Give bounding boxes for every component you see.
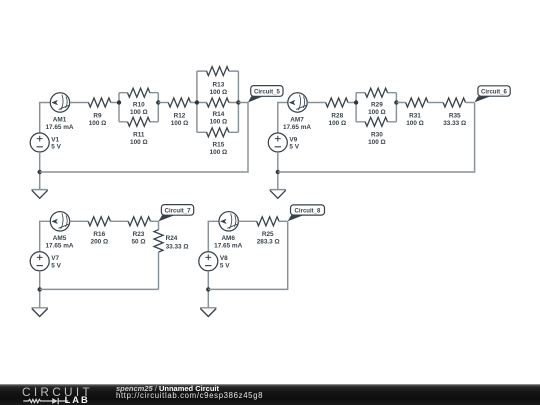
ground (circuit 3) [32, 308, 48, 317]
svg-text:100 Ω: 100 Ω [130, 139, 148, 146]
junction right of R29/R30 [394, 100, 398, 104]
ground (circuit 4) [200, 308, 216, 317]
junction right of triple box [236, 100, 240, 104]
svg-text:100 Ω: 100 Ω [368, 139, 386, 146]
wire box to R31 [396, 102, 405, 104]
svg-text:AM7: AM7 [290, 116, 304, 123]
svg-text:R30: R30 [371, 132, 383, 139]
wire R23 to node Circuit_7 [151, 221, 159, 229]
svg-text:5 V: 5 V [220, 263, 230, 270]
svg-text:17.65 mA: 17.65 mA [45, 124, 73, 131]
svg-text:5 V: 5 V [51, 144, 61, 151]
wire R35 to node Circuit_6 [466, 102, 475, 104]
svg-text:R31: R31 [409, 112, 421, 119]
voltage source V1 (5 V) [30, 133, 61, 152]
resistor R12 (100 Ω) [168, 98, 190, 127]
footer bar [0, 384, 540, 405]
resistor R13 (100 Ω) [207, 67, 229, 96]
net flag Circuit_5 [248, 86, 283, 103]
voltage source V8 (5 V) [199, 252, 230, 271]
resistor R11 (100 Ω) [128, 117, 150, 146]
wire R24 bottom to return [158, 252, 160, 289]
wire R28 to box [348, 102, 356, 104]
svg-text:33.33 Ω: 33.33 Ω [443, 120, 466, 127]
svg-text:R25: R25 [262, 231, 274, 238]
bottom return wire of circuit 2 [278, 103, 475, 173]
resistor R25 (283.3 Ω) [257, 217, 280, 246]
bottom return wire of circuit 1 [40, 103, 248, 173]
svg-text:V8: V8 [220, 255, 228, 262]
CircuitLab logo wordmark [22, 387, 93, 398]
svg-text:100 Ω: 100 Ω [406, 120, 424, 127]
resistor R24 (33.33 Ω) vertical [154, 230, 189, 252]
CircuitLab logo schematic squiggle [22, 396, 72, 405]
net flag Circuit_6 [475, 86, 511, 103]
ammeter AM5 (17.65 mA) [45, 212, 73, 250]
wire from AM6 left to V8 top [208, 221, 219, 252]
junction at V8 bottom node [206, 287, 210, 291]
svg-text:V9: V9 [289, 136, 297, 143]
svg-text:17.65 mA: 17.65 mA [45, 243, 73, 250]
wire R16 to R23 [111, 220, 129, 222]
ground (circuit 2) [270, 190, 286, 199]
svg-text:33.33 Ω: 33.33 Ω [166, 243, 189, 250]
ammeter AM1 (17.65 mA) [45, 93, 73, 131]
wire R9 to parallel box [111, 102, 119, 104]
junction at V1 bottom node [38, 170, 42, 174]
svg-text:AM1: AM1 [53, 116, 67, 123]
svg-text:R15: R15 [213, 141, 225, 148]
svg-text:AM6: AM6 [221, 235, 235, 242]
junction left of R29/R30 [354, 100, 358, 104]
junction at V9 bottom node [276, 170, 280, 174]
svg-text:Circuit_5: Circuit_5 [254, 89, 281, 95]
svg-text:50 Ω: 50 Ω [131, 239, 145, 246]
svg-text:17.65 mA: 17.65 mA [283, 124, 311, 131]
svg-text:R35: R35 [449, 112, 461, 119]
ammeter AM7 (17.65 mA) [283, 93, 311, 131]
svg-text:R14: R14 [213, 111, 225, 118]
CircuitLab logo LAB text [65, 396, 90, 404]
svg-text:R29: R29 [371, 101, 383, 108]
wire R12 to triple box [191, 102, 197, 104]
svg-text:100 Ω: 100 Ω [130, 109, 148, 116]
resistor R10 (100 Ω) [128, 88, 150, 116]
svg-text:R16: R16 [93, 231, 105, 238]
svg-text:100 Ω: 100 Ω [210, 119, 228, 126]
wire from AM7 left to V9 top [278, 103, 288, 134]
junction at V7 bottom node [38, 287, 42, 291]
resistor R9 (100 Ω) [88, 98, 110, 127]
wire R25 to node Circuit_8 [279, 220, 288, 222]
footer url line [116, 392, 263, 399]
svg-text:100 Ω: 100 Ω [329, 120, 347, 127]
svg-text:100 Ω: 100 Ω [368, 109, 386, 116]
svg-text:R11: R11 [133, 132, 145, 139]
wire box1 to R12 [158, 102, 168, 104]
svg-text:Circuit_8: Circuit_8 [295, 209, 322, 215]
junction left of R10/R11 [117, 100, 121, 104]
svg-text:R10: R10 [133, 101, 145, 108]
svg-text:V7: V7 [51, 255, 59, 262]
svg-text:5 V: 5 V [289, 144, 299, 151]
junction right of R10/R11 [156, 100, 160, 104]
wire AM6 to R25 [238, 220, 256, 222]
svg-text:100 Ω: 100 Ω [210, 149, 228, 156]
footer title line [116, 385, 219, 392]
svg-text:Circuit_6: Circuit_6 [481, 89, 508, 95]
wire triple box to node Circuit_5 [238, 102, 248, 104]
wire from V8 bottom to ground [207, 271, 209, 308]
resistor R35 (33.33 Ω) [443, 98, 466, 127]
svg-text:283.3 Ω: 283.3 Ω [257, 239, 280, 246]
parallel box frame for R13/R14/R15 [197, 71, 239, 132]
wire from AM1 left to V1 top [40, 103, 51, 134]
svg-text:R28: R28 [331, 112, 343, 119]
svg-text:100 Ω: 100 Ω [89, 120, 107, 127]
svg-text:100 Ω: 100 Ω [210, 89, 228, 96]
svg-text:5 V: 5 V [51, 263, 61, 270]
wire from AM5 left to V7 top [40, 221, 51, 252]
parallel box frame for R10/R11 [119, 93, 158, 122]
svg-text:R12: R12 [174, 112, 186, 119]
bottom return wire of circuit 4 [208, 221, 287, 289]
wire AM7 to R28 [307, 102, 325, 104]
svg-text:Circuit_7: Circuit_7 [165, 209, 192, 215]
resistor R31 (100 Ω) [406, 98, 428, 127]
resistor R28 (100 Ω) [326, 98, 348, 127]
svg-text:R23: R23 [133, 231, 145, 238]
svg-text:R9: R9 [93, 112, 102, 119]
resistor R14 (100 Ω) [207, 98, 229, 126]
svg-text:R13: R13 [213, 81, 225, 88]
voltage source V9 (5 V) [268, 133, 299, 152]
junction left of triple box [195, 100, 199, 104]
net flag Circuit_8 [288, 205, 325, 221]
ammeter AM6 (17.65 mA) [214, 212, 242, 250]
svg-text:200 Ω: 200 Ω [91, 239, 109, 246]
svg-text:V1: V1 [51, 136, 59, 143]
wire AM1 to R9 [70, 102, 89, 104]
wire R31 to R35 [428, 102, 443, 104]
resistor R23 (50 Ω) [128, 217, 150, 246]
resistor R15 (100 Ω) [207, 128, 229, 156]
svg-text:R24: R24 [166, 235, 178, 242]
ground (circuit 1) [32, 190, 48, 199]
parallel box frame for R29/R30 [356, 93, 396, 122]
svg-text:AM5: AM5 [53, 235, 67, 242]
resistor R16 (200 Ω) [88, 217, 110, 246]
wire AM5 to R16 [70, 220, 88, 222]
resistor R29 (100 Ω) [365, 88, 387, 116]
resistor R30 (100 Ω) [365, 117, 387, 146]
bottom return wire of circuit 3 [40, 288, 159, 290]
net flag Circuit_7 [159, 205, 194, 222]
voltage source V7 (5 V) [30, 252, 61, 271]
svg-text:100 Ω: 100 Ω [171, 120, 189, 127]
wire from V7 bottom to ground [39, 271, 41, 308]
wire from V9 bottom to ground [277, 152, 279, 190]
wire from V1 bottom to ground [39, 152, 41, 190]
svg-text:17.65 mA: 17.65 mA [214, 243, 242, 250]
